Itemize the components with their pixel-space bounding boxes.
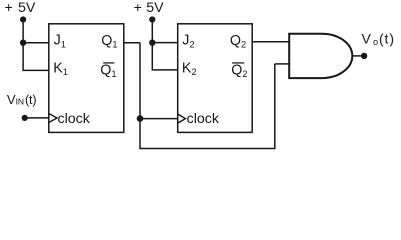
node: +5V terminal 2: [149, 16, 155, 22]
svg-text:+: +: [5, 0, 13, 16]
svg-text:5V: 5V: [146, 0, 164, 16]
wire: Q1 riser down: [139, 43, 141, 149]
AND gate U3: [289, 34, 352, 78]
wire: clock2 input: [140, 118, 178, 120]
wire: +5V rail 1 vertical: [22, 20, 24, 71]
clock2 triangle: [178, 114, 186, 123]
flip-flop U2 box: [178, 24, 253, 133]
node: Vin terminal: [22, 115, 28, 121]
wire: Q1 output horizontal: [124, 42, 140, 44]
node: +5V terminal 1: [20, 16, 26, 22]
svg-text:Vo(t): Vo(t): [362, 31, 395, 47]
wire: Q2 to AND upper input: [252, 41, 289, 43]
wire: right riser up to AND input: [274, 64, 276, 149]
svg-text:5V: 5V: [18, 0, 36, 16]
node: clock2 junction: [137, 115, 144, 122]
wire: AND output: [352, 55, 364, 57]
wire: J1 input: [23, 42, 49, 44]
wire: K1 input: [22, 69, 48, 71]
node: J2 rail junction: [149, 39, 155, 45]
wire: AND lower input: [275, 63, 289, 65]
svg-text:clock: clock: [187, 111, 220, 127]
overbar Q2: [232, 62, 244, 63]
node: Vo terminal: [361, 53, 367, 59]
wire: +5V rail 2 vertical: [151, 20, 153, 70]
svg-text:clock: clock: [58, 111, 91, 127]
wire: Vin to clock1: [25, 117, 49, 119]
overbar Q1: [103, 62, 114, 63]
svg-text:+: +: [134, 0, 142, 16]
wire: bottom run: [139, 148, 274, 150]
node: J1 rail junction: [20, 40, 26, 46]
wire: J2 input: [152, 42, 177, 44]
flip-flop U1 box: [49, 24, 124, 133]
wire: K2 input: [152, 69, 178, 71]
clock1 triangle: [49, 114, 57, 123]
